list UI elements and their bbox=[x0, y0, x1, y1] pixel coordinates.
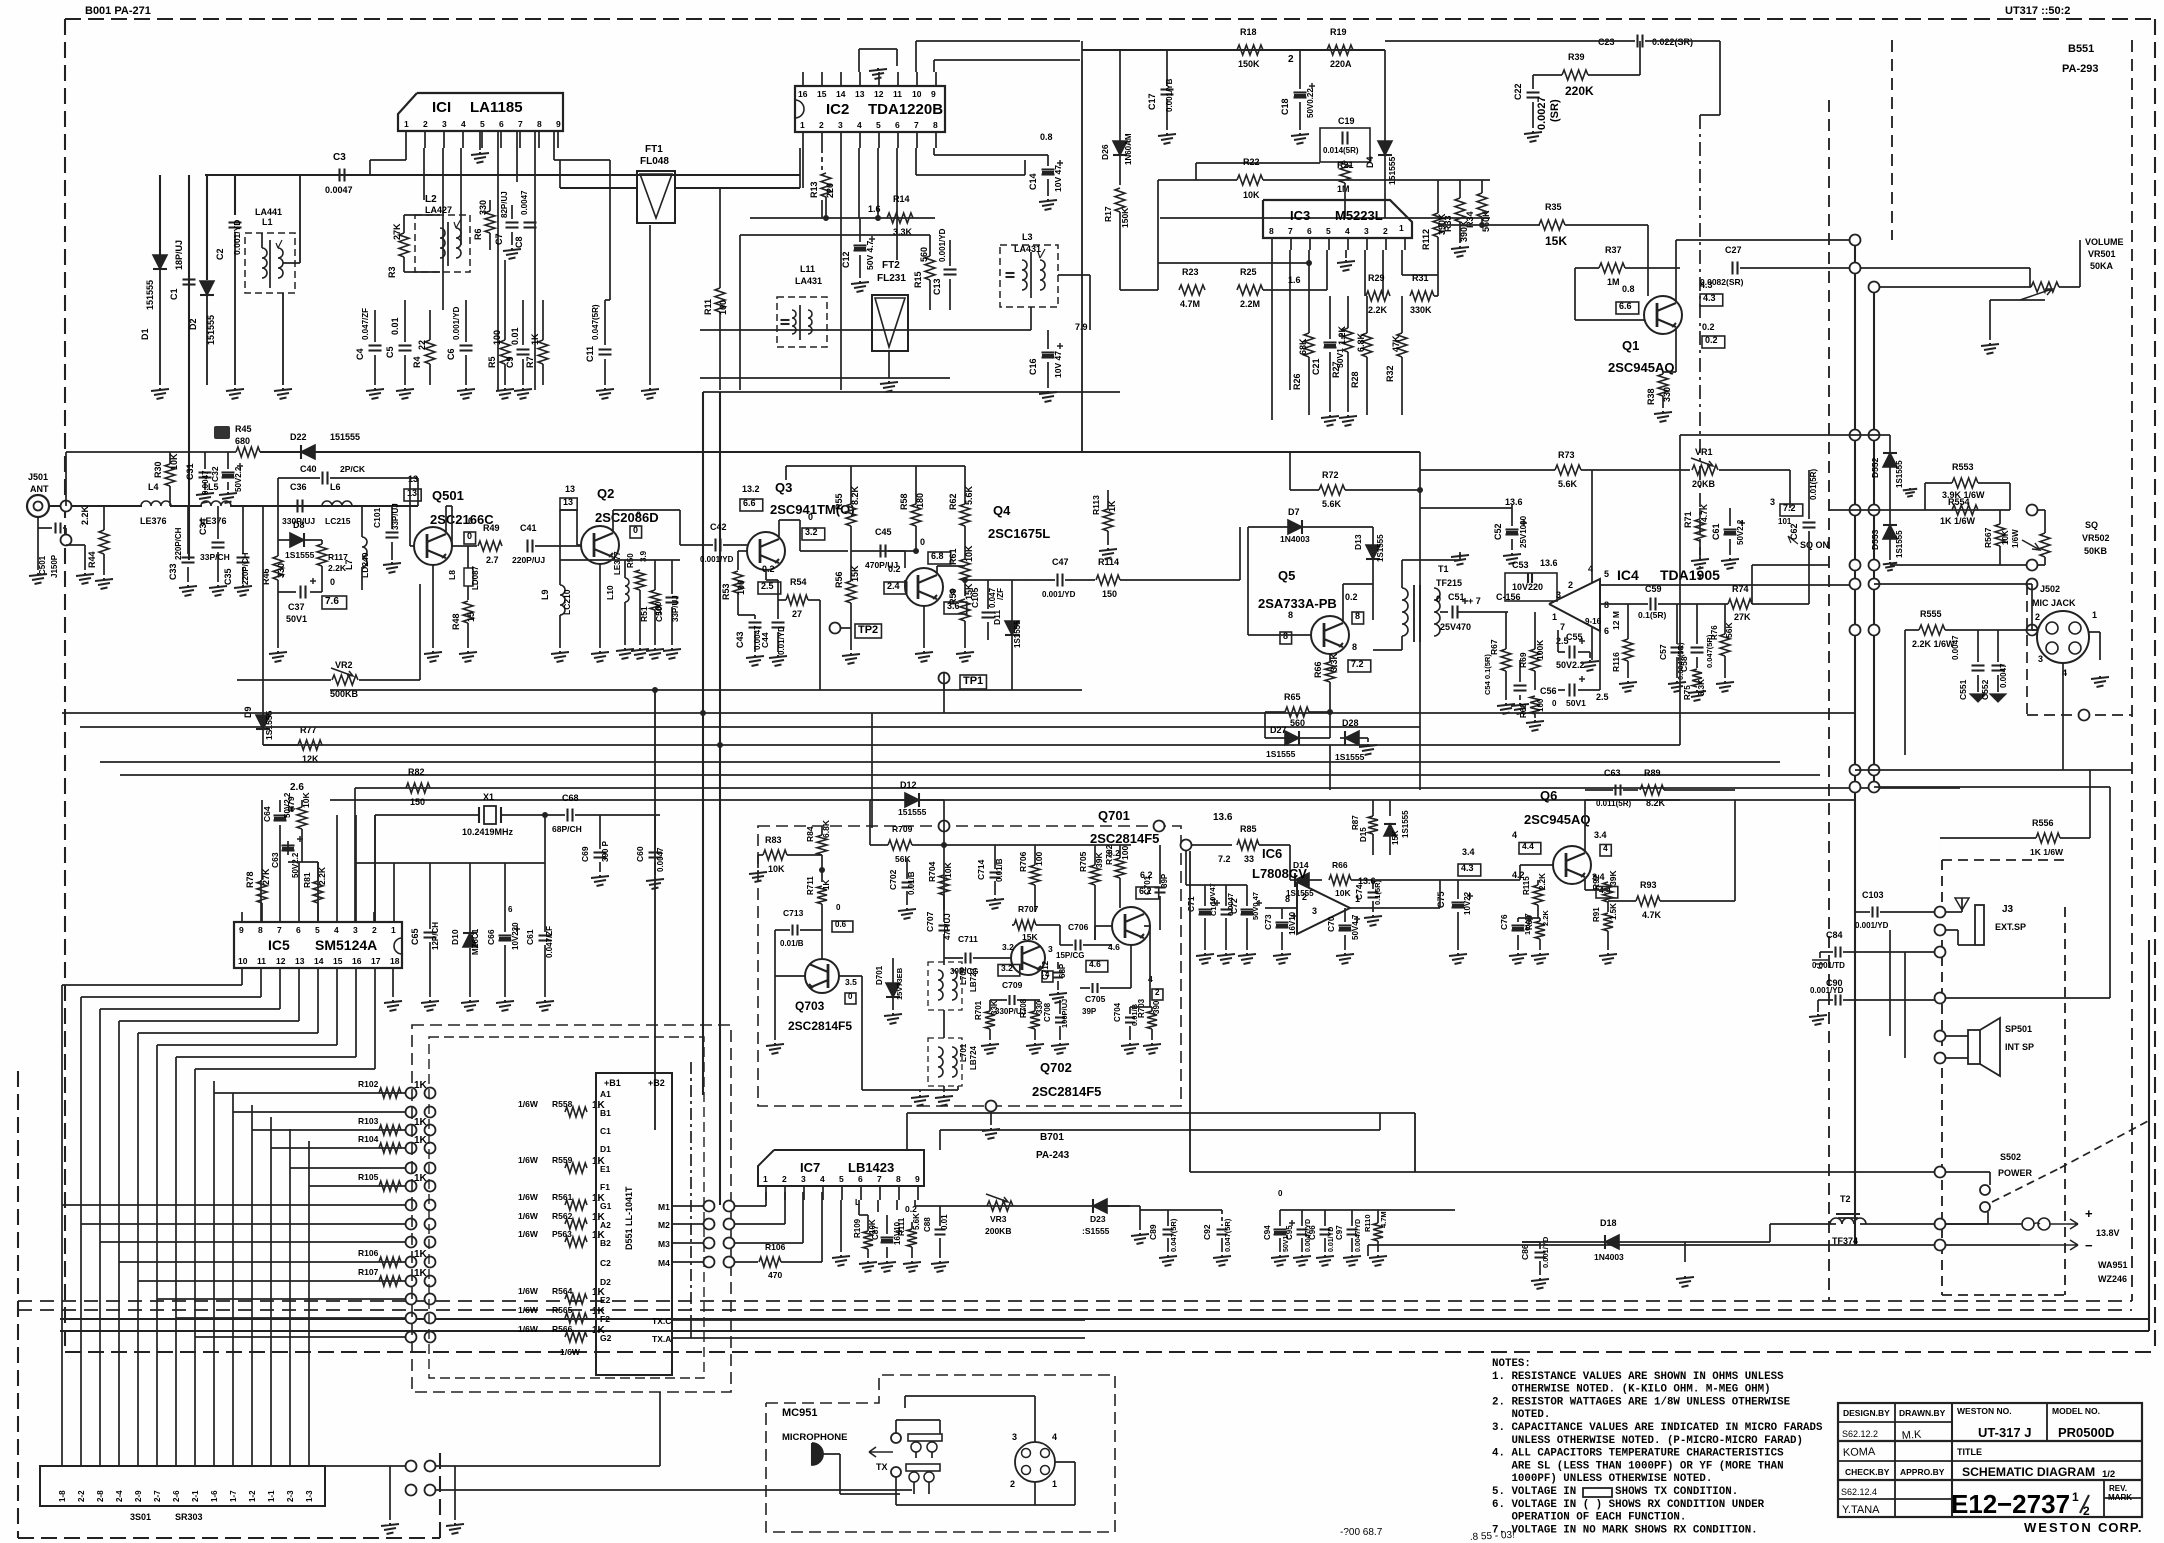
svg-text:100: 100 bbox=[736, 580, 746, 595]
svg-text:1N60AM: 1N60AM bbox=[1124, 133, 1133, 165]
svg-text:0.01(5R): 0.01(5R) bbox=[1809, 469, 1818, 500]
svg-text:27K: 27K bbox=[392, 223, 402, 240]
transistor Q4 2SC1675L bbox=[905, 568, 943, 606]
svg-text:C3: C3 bbox=[333, 152, 346, 163]
svg-text:1-1: 1-1 bbox=[267, 1490, 276, 1502]
coil L701 LB724 dashed bbox=[928, 1038, 962, 1086]
svg-text:50V1: 50V1 bbox=[286, 614, 307, 624]
IC2 pin10 wire bbox=[915, 41, 917, 72]
diode D701 15V73EB zener bbox=[886, 983, 900, 997]
svg-text:14: 14 bbox=[314, 956, 324, 966]
capacitor C69 390P bbox=[594, 851, 607, 853]
capacitor C33 220P/CH bbox=[182, 556, 195, 558]
mic wires bbox=[823, 1453, 840, 1455]
svg-text:6: 6 bbox=[1307, 226, 1312, 236]
svg-text:C2: C2 bbox=[600, 1258, 611, 1268]
svg-text:2P/CK: 2P/CK bbox=[340, 464, 366, 474]
svg-text:2: 2 bbox=[372, 925, 377, 935]
svg-text:R554: R554 bbox=[1948, 497, 1970, 507]
svg-text:12: 12 bbox=[874, 89, 884, 99]
svg-text:R59: R59 bbox=[948, 588, 958, 605]
svg-text:MARK: MARK bbox=[2108, 1493, 2132, 1502]
svg-text:C36: C36 bbox=[290, 482, 307, 492]
svg-text:C97: C97 bbox=[1335, 1225, 1344, 1240]
inductor L4 LE376 bbox=[141, 501, 171, 506]
open circles col x1940 bbox=[1935, 907, 1946, 918]
svg-text:1: 1 bbox=[1052, 1479, 1057, 1489]
svg-text:1: 1 bbox=[404, 119, 409, 129]
svg-text:IC6: IC6 bbox=[1262, 846, 1282, 861]
svg-text:150K: 150K bbox=[1120, 207, 1130, 228]
svg-text:MZ6C1: MZ6C1 bbox=[471, 928, 480, 955]
Q4 collector wire bbox=[936, 566, 938, 574]
svg-text:6.6: 6.6 bbox=[743, 498, 756, 508]
svg-text:27K: 27K bbox=[261, 868, 271, 885]
svg-text:3: 3 bbox=[801, 1174, 806, 1184]
svg-text:100: 100 bbox=[1536, 698, 1545, 712]
resistor R92 39K bbox=[1603, 882, 1613, 902]
svg-text:C105: C105 bbox=[970, 587, 980, 608]
svg-text:R562: R562 bbox=[552, 1211, 573, 1221]
svg-text:3.2: 3.2 bbox=[805, 527, 818, 537]
PTT wires bbox=[895, 1420, 897, 1433]
svg-text:C1: C1 bbox=[600, 1126, 611, 1136]
svg-text:+B2: +B2 bbox=[648, 1078, 665, 1088]
svg-text:R5: R5 bbox=[487, 356, 497, 368]
svg-text:4: 4 bbox=[820, 1174, 825, 1184]
capacitor C713 0.01/B bbox=[791, 925, 793, 936]
svg-text:−: − bbox=[2085, 1238, 2093, 1253]
svg-text:R559: R559 bbox=[552, 1155, 573, 1165]
svg-text:R105: R105 bbox=[358, 1172, 379, 1182]
svg-text:R48: R48 bbox=[451, 613, 461, 630]
svg-text:D15: D15 bbox=[1359, 827, 1368, 842]
svg-text:D8: D8 bbox=[293, 520, 305, 530]
svg-text:R29: R29 bbox=[1368, 273, 1385, 283]
svg-text:15V73EB: 15V73EB bbox=[895, 967, 904, 1000]
svg-text:0.047(5R): 0.047(5R) bbox=[1223, 1218, 1232, 1252]
IC5 SM5124A box bbox=[234, 922, 402, 968]
svg-text:1S1555: 1S1555 bbox=[1895, 460, 1904, 488]
svg-text:L11: L11 bbox=[800, 264, 815, 274]
B701 open circles on border bbox=[939, 821, 950, 832]
svg-text:C551: C551 bbox=[1958, 679, 1968, 700]
capacitor C8 0.0047 bbox=[524, 221, 537, 223]
IC4 pin wires bbox=[1591, 470, 1593, 583]
svg-text:Q1: Q1 bbox=[1622, 338, 1639, 353]
svg-text:4: 4 bbox=[1345, 226, 1350, 236]
svg-text:C70: C70 bbox=[1326, 916, 1336, 932]
dashed corner mic area bbox=[2027, 714, 2132, 716]
svg-text:S62.12.4: S62.12.4 bbox=[1841, 1487, 1877, 1497]
open circle at Q701 right bbox=[1181, 840, 1192, 851]
svg-text:C23: C23 bbox=[1598, 37, 1615, 47]
svg-text:5: 5 bbox=[839, 1174, 844, 1184]
ground under R46 bbox=[269, 651, 287, 662]
svg-text:C713: C713 bbox=[783, 908, 804, 918]
svg-text:0: 0 bbox=[467, 531, 472, 541]
svg-text:R66: R66 bbox=[1313, 661, 1323, 678]
ground IC1 pin5 bbox=[479, 131, 481, 150]
wire y1172 long bbox=[1190, 1171, 1935, 1173]
svg-text:Q2: Q2 bbox=[597, 486, 614, 501]
speaker area dashed border x2065 bbox=[2064, 907, 2066, 1295]
svg-text:3.3K: 3.3K bbox=[1697, 679, 1706, 696]
svg-text:39K: 39K bbox=[1094, 852, 1104, 868]
svg-text:3: 3 bbox=[1048, 944, 1053, 954]
svg-text:KOMA: KOMA bbox=[1843, 1446, 1876, 1459]
svg-text:150K: 150K bbox=[1238, 59, 1260, 69]
svg-text:220K: 220K bbox=[1565, 84, 1594, 98]
svg-text:100: 100 bbox=[492, 330, 502, 345]
svg-text:R25: R25 bbox=[1240, 267, 1257, 277]
svg-text:R49: R49 bbox=[483, 523, 500, 533]
svg-text:13.6: 13.6 bbox=[1505, 497, 1523, 507]
resistor R68 100 bbox=[1530, 696, 1540, 714]
svg-text:IC7: IC7 bbox=[800, 1160, 820, 1175]
svg-text:IC4: IC4 bbox=[1617, 567, 1639, 583]
transistor Q6 2SC945AQ bbox=[1553, 846, 1591, 884]
svg-text:0.014(5R): 0.014(5R) bbox=[1323, 146, 1359, 155]
svg-text:R91: R91 bbox=[1592, 907, 1601, 922]
long vertical bus x720 bbox=[719, 392, 721, 1205]
svg-text:2.5: 2.5 bbox=[1596, 692, 1609, 702]
wire top inner rail y845 bbox=[944, 844, 1131, 846]
svg-text:R44: R44 bbox=[87, 551, 97, 568]
vertical bus x872 bbox=[871, 713, 873, 828]
svg-text:R567: R567 bbox=[1983, 527, 1993, 548]
svg-text:WA951: WA951 bbox=[2098, 1260, 2128, 1270]
svg-text:R18: R18 bbox=[1240, 27, 1257, 37]
svg-text:3: 3 bbox=[442, 119, 447, 129]
svg-text:-?00 68.7: -?00 68.7 bbox=[1340, 1527, 1383, 1538]
mic round connector bbox=[1015, 1442, 1055, 1482]
svg-text:1/6W: 1/6W bbox=[518, 1286, 539, 1296]
svg-text:INT SP: INT SP bbox=[2005, 1042, 2034, 1052]
ground under C2 bbox=[226, 388, 244, 399]
svg-text:22: 22 bbox=[417, 340, 427, 350]
svg-text:13.6: 13.6 bbox=[1540, 558, 1558, 568]
capacitor C86 0.001/YD bbox=[1535, 1251, 1546, 1253]
ground mid power bbox=[1684, 1242, 1686, 1262]
transistor Q1 2SC945AQ bbox=[1644, 296, 1682, 334]
svg-text:Y.TANA: Y.TANA bbox=[1842, 1504, 1880, 1516]
svg-text:0.01: 0.01 bbox=[390, 317, 400, 335]
resistor R58 180 bbox=[911, 504, 921, 526]
VR2 500KB pot bbox=[332, 675, 358, 685]
resistor R71 4.7K bbox=[1695, 519, 1705, 541]
svg-text:8: 8 bbox=[537, 119, 542, 129]
svg-text:560: 560 bbox=[1290, 718, 1305, 728]
wire y584 long bbox=[1874, 583, 2032, 585]
svg-text:TP2: TP2 bbox=[858, 624, 878, 636]
vertical links mid band bbox=[943, 672, 945, 690]
svg-text:3: 3 bbox=[1556, 590, 1561, 600]
svg-text:−2737: −2737 bbox=[1997, 1489, 2070, 1519]
diode D9 151555 bbox=[256, 715, 270, 729]
svg-text:R35: R35 bbox=[1545, 202, 1562, 212]
svg-text:R565: R565 bbox=[552, 1305, 573, 1315]
resistor R65 560 bbox=[1285, 707, 1309, 717]
svg-text:C59: C59 bbox=[1645, 584, 1662, 594]
svg-text:151555: 151555 bbox=[145, 280, 155, 310]
svg-text:R711: R711 bbox=[806, 876, 815, 895]
svg-text:2: 2 bbox=[1302, 892, 1307, 902]
svg-text:R30: R30 bbox=[153, 461, 163, 478]
svg-text:0.0027: 0.0027 bbox=[1536, 96, 1548, 130]
svg-text:10K: 10K bbox=[169, 453, 179, 470]
dash-dot vertical x691 bbox=[690, 1062, 692, 1320]
node join R34 bbox=[1481, 224, 1483, 226]
bus line y1113 from IC7 region bbox=[907, 1112, 1415, 1114]
svg-text:C89: C89 bbox=[1148, 1224, 1158, 1240]
capacitor C17 0.001/YB bbox=[1161, 88, 1174, 90]
svg-text:DESIGN.BY: DESIGN.BY bbox=[1843, 1408, 1890, 1418]
svg-text:2.7: 2.7 bbox=[486, 555, 499, 565]
capacitor C702 0.01/B bbox=[902, 881, 913, 883]
inner bottom dashed border lines bbox=[18, 1300, 2132, 1302]
svg-text:7.6: 7.6 bbox=[325, 596, 339, 607]
svg-text:R71: R71 bbox=[1683, 511, 1693, 528]
svg-text:6.8: 6.8 bbox=[931, 551, 944, 561]
svg-text:220A: 220A bbox=[1330, 59, 1352, 69]
bead L8 LD087 bbox=[464, 568, 473, 586]
svg-text:4.3: 4.3 bbox=[1703, 293, 1716, 303]
capacitor C57 0.0047(5R) bbox=[1671, 646, 1684, 648]
svg-text:R38: R38 bbox=[1646, 388, 1656, 405]
svg-text:D26: D26 bbox=[1100, 144, 1110, 160]
resistor R112 390K bbox=[1433, 213, 1443, 237]
svg-text:TX.A: TX.A bbox=[652, 1334, 671, 1344]
svg-text:39K: 39K bbox=[1608, 870, 1618, 886]
capacitor C3 0.0047 bbox=[338, 169, 340, 182]
svg-text:C33: C33 bbox=[168, 563, 178, 580]
svg-text:D2: D2 bbox=[600, 1277, 611, 1287]
svg-text:B001 PA-271: B001 PA-271 bbox=[85, 5, 151, 17]
Q4 base wire bbox=[904, 580, 906, 587]
VR3 200KB pot bbox=[987, 1201, 1013, 1211]
Q501 collector wire bbox=[445, 506, 447, 532]
svg-text:7. VOLTAGE IN NO MARK SHOWS RX: 7. VOLTAGE IN NO MARK SHOWS RX CONDITION… bbox=[1492, 1524, 1758, 1536]
svg-text:FL048: FL048 bbox=[640, 156, 669, 167]
svg-text:D13: D13 bbox=[1353, 534, 1363, 550]
svg-text:E12: E12 bbox=[1951, 1489, 1997, 1519]
power dashed vertical x1942 bbox=[1941, 860, 1943, 1295]
svg-text:3. CAPACITANCE VALUES ARE INDI: 3. CAPACITANCE VALUES ARE INDICATED IN M… bbox=[1492, 1422, 1823, 1434]
capacitor C18 50V0.22 bbox=[1294, 91, 1307, 93]
svg-text:1/6W: 1/6W bbox=[518, 1211, 539, 1221]
svg-text:3.5: 3.5 bbox=[845, 977, 857, 987]
svg-text:1M: 1M bbox=[1337, 184, 1350, 194]
resistor R704 10K bbox=[939, 875, 949, 895]
svg-text:8: 8 bbox=[1269, 226, 1274, 236]
diode D7 1N4003 bbox=[1288, 520, 1302, 534]
svg-text:C22: C22 bbox=[1513, 83, 1523, 100]
svg-text:LA431: LA431 bbox=[795, 276, 822, 286]
svg-text:1K: 1K bbox=[822, 880, 831, 890]
svg-text:0.022(SR): 0.022(SR) bbox=[1652, 37, 1693, 47]
transistor Q2 2SC2086D bbox=[581, 526, 619, 564]
svg-text:0.001/YB: 0.001/YB bbox=[1165, 78, 1174, 112]
svg-text:47P/UJ: 47P/UJ bbox=[943, 913, 952, 940]
svg-text:10K: 10K bbox=[964, 545, 974, 562]
svg-text:TITLE: TITLE bbox=[1957, 1447, 1982, 1457]
svg-text:2: 2 bbox=[2035, 612, 2040, 622]
resistor R46 330 bbox=[273, 556, 283, 580]
diode D14 151555 bbox=[1295, 873, 1309, 887]
capacitor C59 0.1(5R) bbox=[1649, 598, 1651, 611]
capacitor C23 0.022(SR) bbox=[1636, 35, 1638, 48]
svg-text:50KA: 50KA bbox=[2090, 261, 2114, 271]
svg-text:2-9: 2-9 bbox=[134, 1490, 143, 1502]
svg-text:IC5: IC5 bbox=[268, 937, 290, 953]
svg-text:C8: C8 bbox=[514, 236, 524, 248]
capacitor C31 0.0047 bbox=[199, 471, 212, 473]
IC1 LA1185 box bbox=[398, 93, 563, 131]
svg-text:C72: C72 bbox=[1229, 898, 1239, 914]
svg-text:M3: M3 bbox=[658, 1239, 670, 1249]
filter FT2 FL231 box bbox=[872, 295, 908, 351]
svg-text:13: 13 bbox=[295, 956, 305, 966]
wire IC1 pins to L2 bbox=[423, 175, 425, 200]
svg-text:6. VOLTAGE IN ( ) SHOWS RX CON: 6. VOLTAGE IN ( ) SHOWS RX CONDITION UND… bbox=[1492, 1499, 1765, 1511]
svg-text:0.2: 0.2 bbox=[1705, 335, 1718, 345]
resistor R93 4.7K bbox=[1636, 896, 1660, 906]
svg-text:1.6: 1.6 bbox=[868, 204, 881, 214]
resistor R27 1.2K bbox=[1343, 328, 1353, 352]
capacitor C76 10V47 bbox=[1512, 924, 1525, 926]
svg-text:390 P: 390 P bbox=[601, 840, 610, 862]
B551 right board dashed border bbox=[1828, 100, 1830, 1300]
svg-text:FT1: FT1 bbox=[645, 144, 663, 155]
svg-text:330: 330 bbox=[276, 563, 286, 578]
svg-text:2: 2 bbox=[1010, 1479, 1015, 1489]
svg-text:33P/UJ: 33P/UJ bbox=[391, 503, 400, 530]
Q2 collector wire bbox=[612, 510, 614, 532]
svg-text:330: 330 bbox=[1662, 387, 1672, 402]
svg-text:C88: C88 bbox=[923, 1217, 932, 1232]
bus line y788 bbox=[355, 787, 1960, 789]
zener D10 MZ6C1 bbox=[463, 933, 477, 947]
svg-text:R72: R72 bbox=[1322, 470, 1339, 480]
svg-text:C68: C68 bbox=[562, 793, 579, 803]
svg-text:8: 8 bbox=[258, 925, 263, 935]
svg-text:R15: R15 bbox=[913, 271, 923, 288]
svg-text:2. RESISTOR WATTAGES ARE 1/8W: 2. RESISTOR WATTAGES ARE 1/8W UNLESS OTH… bbox=[1492, 1396, 1791, 1408]
svg-text:Q6: Q6 bbox=[1540, 788, 1557, 803]
svg-text:8: 8 bbox=[1352, 642, 1357, 652]
svg-text:R709: R709 bbox=[892, 824, 913, 834]
ground near T1 bbox=[1459, 552, 1461, 560]
resistor R703 390 bbox=[1147, 1011, 1157, 1029]
svg-text:4: 4 bbox=[1512, 830, 1517, 840]
resistor R3 27K bbox=[399, 233, 409, 257]
svg-text:R62: R62 bbox=[948, 493, 958, 510]
svg-text:L701: L701 bbox=[959, 1043, 968, 1062]
resistor R13 220 bbox=[821, 173, 831, 197]
resistor R88 2.2K bbox=[1535, 921, 1545, 939]
resistor R39 220K bold bbox=[1562, 70, 1588, 80]
svg-text:R45: R45 bbox=[235, 424, 252, 434]
outer dashed border right bbox=[2154, 19, 2156, 1352]
svg-text:4: 4 bbox=[1603, 843, 1608, 853]
svg-text:0.01/YD: 0.01/YD bbox=[777, 626, 786, 655]
svg-text:15K: 15K bbox=[850, 565, 860, 582]
filter FT1 FL048 box bbox=[637, 171, 675, 223]
svg-text:0.0082(SR): 0.0082(SR) bbox=[1700, 277, 1744, 287]
IC3 M5223L box bbox=[1263, 200, 1412, 238]
svg-text:1S1555: 1S1555 bbox=[1013, 620, 1022, 648]
svg-text:0.8: 0.8 bbox=[1040, 132, 1053, 142]
right inner solid border bbox=[2148, 940, 2150, 1331]
svg-text:0.2: 0.2 bbox=[762, 564, 775, 574]
svg-text:13: 13 bbox=[563, 497, 573, 507]
svg-text:C66: C66 bbox=[486, 929, 496, 945]
svg-text:C61: C61 bbox=[1711, 523, 1721, 540]
IC5 pin1 ground bbox=[392, 968, 394, 997]
dash-dot vertical x1700 bbox=[1699, 115, 1701, 580]
svg-text:L7808CV: L7808CV bbox=[1252, 866, 1307, 881]
svg-text:R23: R23 bbox=[1182, 267, 1199, 277]
svg-text:SP501: SP501 bbox=[2005, 1024, 2032, 1034]
svg-text:R112: R112 bbox=[1421, 229, 1431, 250]
open circle junctions at border bbox=[61, 501, 72, 512]
resistor R66 3.3K bbox=[1325, 662, 1335, 682]
svg-text:LA441: LA441 bbox=[255, 207, 282, 217]
IC2 bottom pin stubs bbox=[802, 132, 804, 148]
svg-text:8: 8 bbox=[933, 120, 938, 130]
resistor R110 4.7M bbox=[1373, 1223, 1383, 1241]
svg-text:50KB: 50KB bbox=[2084, 546, 2108, 556]
svg-text:15P/CG: 15P/CG bbox=[1056, 951, 1084, 960]
capacitor C44 0.01/YD bbox=[772, 621, 785, 623]
transistor Q501 2SC2166C bbox=[414, 527, 452, 565]
svg-text:C47: C47 bbox=[1052, 557, 1069, 567]
svg-text:0.0047: 0.0047 bbox=[201, 470, 210, 495]
svg-text:50V4.7: 50V4.7 bbox=[1351, 914, 1360, 940]
svg-text:FL231: FL231 bbox=[877, 273, 906, 284]
svg-text:10K: 10K bbox=[943, 862, 953, 878]
svg-text:4.4: 4.4 bbox=[1522, 841, 1534, 851]
svg-text:5: 5 bbox=[1604, 569, 1609, 579]
svg-text:C714: C714 bbox=[976, 859, 986, 880]
inductor L5 LE376 bbox=[201, 501, 231, 506]
resistor R14 3.3K bbox=[887, 213, 913, 223]
svg-text:R92: R92 bbox=[1591, 874, 1601, 890]
svg-text:B1: B1 bbox=[600, 1108, 611, 1118]
svg-text:3S01: 3S01 bbox=[130, 1512, 151, 1522]
resistor R30 10K bbox=[165, 464, 175, 486]
svg-text:R17: R17 bbox=[1103, 206, 1113, 222]
svg-text:0: 0 bbox=[1436, 594, 1441, 604]
svg-text:APPRO.BY: APPRO.BY bbox=[1900, 1467, 1945, 1477]
svg-text:R116: R116 bbox=[1611, 652, 1621, 672]
svg-text:C712: C712 bbox=[1041, 960, 1050, 980]
wire y770 and 787 bbox=[330, 799, 1680, 801]
svg-text:1/6W: 1/6W bbox=[2011, 529, 2020, 548]
capacitor C47 0.001/YD bbox=[1056, 574, 1058, 587]
svg-text:4: 4 bbox=[334, 925, 339, 935]
capacitor C709 330P/UJ bbox=[1008, 995, 1010, 1005]
IC2 pin9 wire to right bbox=[933, 60, 935, 72]
svg-text:0: 0 bbox=[468, 516, 473, 526]
resistor R50 3.9 bbox=[635, 570, 645, 590]
svg-text:0: 0 bbox=[1552, 699, 1557, 708]
svg-text:0.01: 0.01 bbox=[940, 1214, 949, 1230]
diode D553 1S1555 bbox=[1883, 525, 1897, 539]
resistor R54 27 bbox=[786, 595, 808, 605]
svg-text:151555: 151555 bbox=[330, 432, 360, 442]
